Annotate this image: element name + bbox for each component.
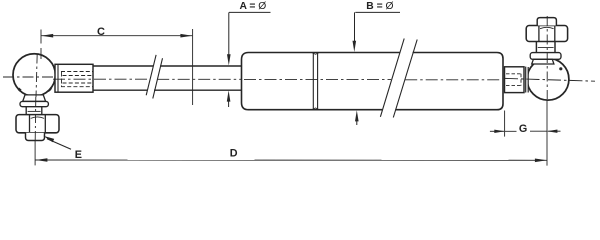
right neck chamfer line bbox=[538, 47, 554, 49]
right socket lip bbox=[532, 59, 554, 64]
leader A underline bbox=[229, 11, 271, 13]
dimension D line bbox=[36, 158, 547, 162]
extension line G left bbox=[504, 111, 506, 137]
right ball joint housing circle bbox=[527, 58, 569, 100]
leader B underline bbox=[355, 11, 400, 13]
extension line C left bbox=[40, 30, 42, 60]
extension line D left bbox=[34, 141, 36, 166]
right housing face bbox=[526, 67, 529, 93]
right ball horizontal centerline bbox=[505, 78, 595, 81]
leader A bottom arrow at rod bottom bbox=[227, 90, 231, 107]
svg-text:D: D bbox=[230, 148, 238, 160]
svg-text:G: G bbox=[519, 123, 527, 135]
cylinder tube body bbox=[242, 53, 504, 110]
left neck chamfer line bbox=[28, 110, 41, 112]
left ball vertical centerline bbox=[36, 54, 37, 98]
left ball horizontal centerline bbox=[3, 76, 60, 78]
extension line C right bbox=[192, 29, 194, 105]
left ball joint housing circle bbox=[13, 54, 55, 96]
hidden thread in right connector bbox=[506, 74, 521, 86]
svg-text:C: C bbox=[97, 26, 105, 38]
cylinder crimp ridge bbox=[313, 53, 317, 109]
right connector block bbox=[505, 67, 525, 93]
scan speck on left ball bbox=[18, 88, 22, 92]
left stud neck bbox=[26, 107, 42, 115]
cylinder break marks bbox=[380, 39, 417, 118]
thread stub below nut bbox=[26, 133, 45, 141]
main centerline bbox=[53, 78, 502, 81]
rod break marks bbox=[146, 55, 162, 99]
hex nut right bbox=[526, 26, 567, 42]
right stud neck bbox=[536, 42, 555, 53]
dimension G line bbox=[490, 130, 561, 134]
hidden thread lines in connector bbox=[61, 72, 93, 87]
scan speck on right ball bbox=[559, 67, 562, 70]
leader arrow E bbox=[43, 136, 71, 150]
svg-text:B = Ø: B = Ø bbox=[366, 1, 393, 12]
left stud centerline bbox=[34, 97, 37, 140]
piston rod top edge bbox=[93, 65, 242, 67]
rod-end connector block M8 bbox=[48, 64, 94, 92]
svg-text:E: E bbox=[75, 149, 82, 161]
dimension C line bbox=[41, 34, 192, 38]
leader B bottom arrow at cylinder bottom bbox=[355, 110, 359, 125]
thread cap top bbox=[537, 18, 556, 26]
piston rod bottom edge bbox=[93, 89, 242, 91]
leader A vertical with arrow to rod top bbox=[227, 12, 231, 65]
left ball stud flange bbox=[20, 101, 48, 106]
svg-text:A = Ø: A = Ø bbox=[240, 1, 267, 12]
right stud centerline bbox=[546, 16, 548, 99]
hex nut left bbox=[16, 115, 59, 133]
left socket lip bbox=[23, 95, 46, 102]
leader B vertical with arrow to cylinder top bbox=[353, 12, 357, 52]
extension line right ball center bbox=[546, 100, 548, 165]
right stud flange bbox=[530, 53, 561, 60]
